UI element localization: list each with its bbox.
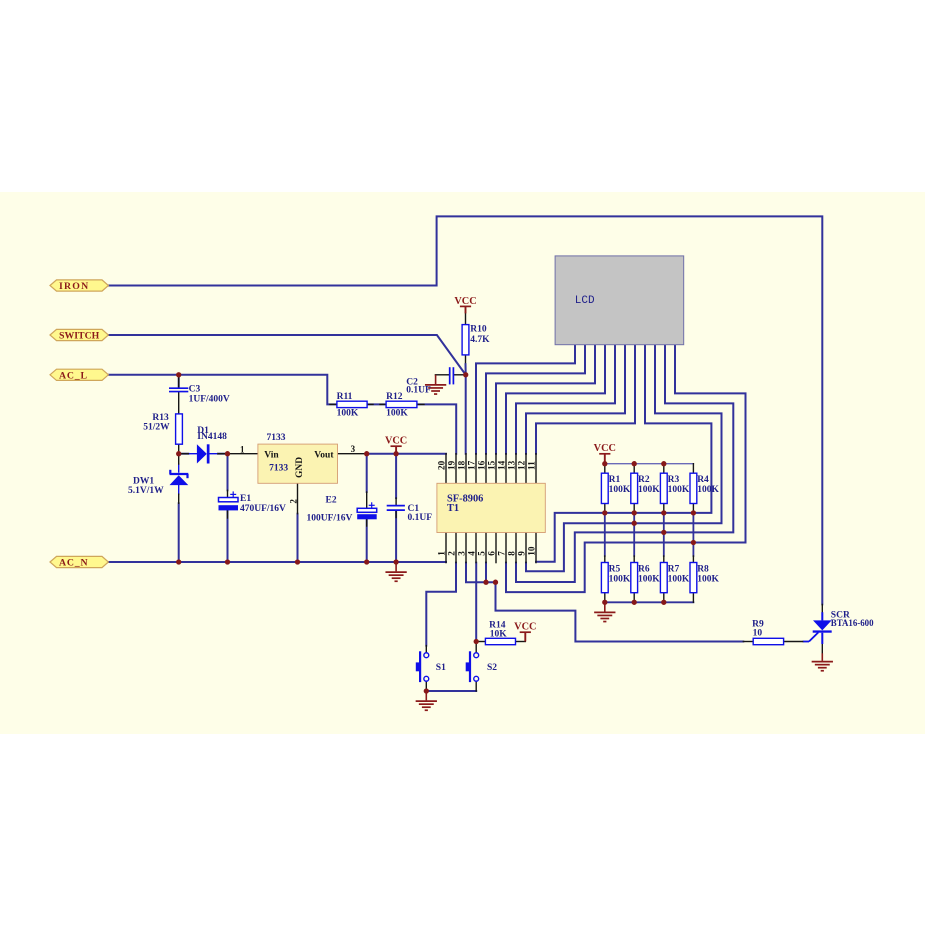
svg-text:3: 3 [351,444,356,454]
svg-text:470UF/16V: 470UF/16V [240,504,286,514]
svg-text:Vout: Vout [314,450,334,460]
svg-text:R13: R13 [152,413,169,423]
svg-text:100K: 100K [386,409,408,419]
svg-text:DW1: DW1 [133,477,154,487]
svg-text:10: 10 [753,629,763,639]
svg-text:100K: 100K [638,574,660,584]
svg-text:4.7K: 4.7K [470,335,490,345]
svg-text:2: 2 [289,499,299,504]
svg-text:100K: 100K [697,485,719,495]
svg-text:1UF/400V: 1UF/400V [189,394,230,404]
svg-text:14: 14 [497,460,507,470]
svg-text:100K: 100K [697,574,719,584]
svg-text:R8: R8 [697,564,709,574]
svg-text:1: 1 [437,551,447,556]
svg-text:13: 13 [507,460,517,470]
svg-text:BTA16-600: BTA16-600 [831,618,874,628]
svg-text:VCC: VCC [454,296,476,307]
svg-text:AC_N: AC_N [59,558,88,569]
svg-text:7: 7 [497,551,507,556]
svg-text:10: 10 [527,546,537,556]
svg-text:S1: S1 [436,663,446,673]
svg-text:R11: R11 [337,392,353,402]
svg-text:T1: T1 [447,503,459,514]
svg-text:2: 2 [447,551,457,556]
svg-text:R3: R3 [668,475,680,485]
svg-text:100K: 100K [668,485,690,495]
svg-text:10K: 10K [490,629,508,639]
svg-text:R7: R7 [668,564,680,574]
svg-text:S2: S2 [487,663,497,673]
svg-text:8: 8 [507,551,517,556]
svg-text:IN4148: IN4148 [197,432,227,442]
svg-text:Vin: Vin [264,450,279,460]
svg-text:R4: R4 [697,475,709,485]
svg-text:0.1UF: 0.1UF [406,386,431,396]
svg-text:100K: 100K [638,485,660,495]
svg-text:100K: 100K [609,485,631,495]
svg-text:100K: 100K [668,574,690,584]
svg-text:19: 19 [447,460,457,470]
svg-text:R6: R6 [638,564,650,574]
svg-text:C3: C3 [189,384,201,394]
svg-text:3: 3 [457,551,467,556]
svg-text:100UF/16V: 100UF/16V [307,513,353,523]
svg-text:0.1UF: 0.1UF [408,513,433,523]
svg-text:17: 17 [467,460,477,470]
svg-text:SWITCH: SWITCH [59,331,100,342]
svg-text:VCC: VCC [385,436,407,447]
svg-text:16: 16 [477,460,487,470]
svg-text:7133: 7133 [267,433,286,443]
svg-text:IRON: IRON [59,281,89,292]
svg-text:7133: 7133 [269,463,288,473]
svg-text:18: 18 [457,460,467,470]
svg-text:LCD: LCD [575,295,595,307]
svg-text:AC_L: AC_L [59,370,88,381]
svg-text:VCC: VCC [514,622,536,633]
svg-text:12: 12 [517,460,527,470]
svg-text:R1: R1 [609,475,621,485]
svg-text:1: 1 [240,445,245,455]
svg-text:9: 9 [517,551,527,556]
svg-text:6: 6 [487,551,497,556]
svg-text:100K: 100K [609,574,631,584]
svg-text:E1: E1 [240,494,251,504]
svg-text:R10: R10 [470,325,487,335]
svg-text:5: 5 [477,551,487,556]
svg-text:R2: R2 [638,475,650,485]
svg-text:15: 15 [487,460,497,470]
svg-text:4: 4 [467,551,477,556]
svg-text:GND: GND [295,457,305,478]
svg-text:100K: 100K [337,409,359,419]
svg-text:11: 11 [527,461,537,470]
svg-text:20: 20 [437,460,447,470]
svg-text:E2: E2 [326,495,337,505]
svg-text:R12: R12 [386,392,403,402]
svg-text:51/2W: 51/2W [143,423,170,433]
svg-text:R5: R5 [609,564,621,574]
svg-text:VCC: VCC [594,443,616,454]
svg-text:5.1V/1W: 5.1V/1W [128,486,164,496]
